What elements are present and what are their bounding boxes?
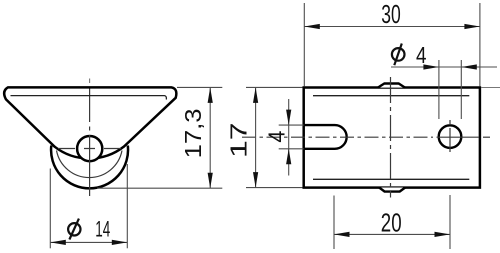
dim 4 slot dimension line [288,99,290,176]
dim 17 dimension line [255,87,257,187]
svg-text:30: 30 [381,1,401,29]
axle horizontal centerline [58,148,121,150]
dim 17 bottom extension line [246,187,303,189]
svg-text:4: 4 [416,42,427,68]
dim 30 arrow left [304,24,320,29]
dim 20 right extension line [449,195,451,249]
hole Ø4 [439,125,462,148]
wheel bump top [378,84,405,88]
plate inner top line [313,95,469,97]
dim 4 slot arrow down [286,110,291,126]
svg-text:17,3: 17,3 [180,108,206,158]
dim 4 slot arrow up [286,149,291,165]
dim 17,3 dimension line [209,87,211,188]
horizontal centerline [242,136,433,138]
dim Ø14 right extension line [126,164,128,248]
hole vertical centerline [449,120,451,153]
dim Ø4 diameter symbol [392,44,405,66]
dim 20 dimension line [334,233,450,235]
wheel bump bottom [379,188,405,192]
dim 4 slot bottom extension line [279,148,304,150]
dim Ø4 dimension line [391,66,497,68]
dim 20 arrow left [334,232,350,237]
wheel inner rim arc (thin) [57,151,123,178]
dim 30 left extension line [303,3,305,87]
dim 30 right extension line [479,3,481,87]
dim 17 top extension line [246,86,303,88]
dim 30 dimension line [304,26,480,28]
dim 17 arrow up [253,87,258,103]
dim Ø14 diameter symbol [68,219,80,240]
dim 17,3 bottom extension line [97,187,222,189]
slot [304,125,347,149]
dim 17,3 arrow up [208,87,213,103]
dim Ø14 left extension line [49,169,51,249]
dim 4 slot top extension line [279,124,304,126]
dim 20 arrow right [435,232,451,237]
corner stub line right of plate [481,87,500,89]
vertical centerline [390,77,392,198]
housing bottom shallow arc [54,146,124,158]
dim Ø4 arrow pointing left [461,64,477,69]
wheel outer arc [51,146,128,189]
vertical centerline [89,79,91,84]
dim 30 arrow right [464,24,480,29]
svg-text:14: 14 [95,216,110,241]
svg-text:17: 17 [226,122,252,158]
dim Ø14 arrow left [50,240,66,245]
housing outline [4,87,176,146]
plate inner line [11,96,167,100]
dim 17,3 top extension line [177,86,222,88]
dim Ø14 arrow right [112,240,128,245]
dim 17 arrow down [253,172,258,188]
dim Ø4 arrow pointing right [423,64,439,69]
dim Ø4 right extension line [460,60,462,119]
svg-text:4: 4 [263,130,289,142]
dim 20 left extension line [333,196,335,250]
plate rectangle [304,88,480,188]
dim Ø4 left extension line [438,60,440,119]
dim 17,3 arrow down [208,173,213,189]
svg-text:20: 20 [381,207,402,237]
dim Ø14 dimension line [50,241,127,243]
plate inner bottom line [313,178,469,180]
axle circle [77,136,102,161]
